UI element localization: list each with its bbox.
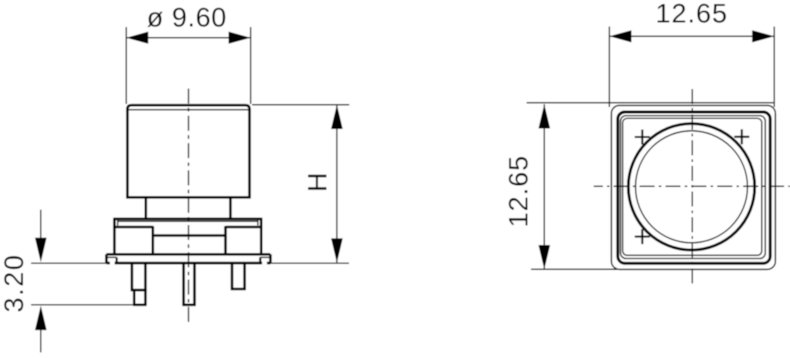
svg-text:12.65: 12.65: [656, 0, 729, 28]
svg-text:H: H: [303, 173, 333, 193]
svg-text:12.65: 12.65: [504, 155, 534, 228]
svg-text:3.20: 3.20: [0, 254, 29, 313]
svg-text:ø 9.60: ø 9.60: [147, 3, 227, 33]
